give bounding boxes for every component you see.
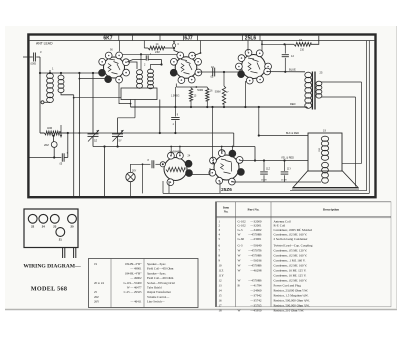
svg-text:18: 18 — [219, 309, 223, 313]
svg-text:19: 19 — [94, 262, 98, 266]
wire gang bottom rail — [93, 146, 234, 148]
svg-text:2 Section Gang Condenser: 2 Section Gang Condenser — [274, 237, 309, 241]
wire left return vertical B — [78, 73, 80, 196]
wire right side AC line 2 — [368, 41, 370, 194]
wire 6K7 grid to 6J7 grid (AVC) — [123, 53, 177, 55]
svg-text:W: W — [238, 309, 241, 313]
svg-text:—56036: —56036 — [249, 259, 262, 263]
wire screen riser — [195, 86, 197, 88]
speaker cone — [293, 171, 358, 188]
RF coil shield box — [121, 88, 157, 100]
svg-text:—45708B: —45708B — [247, 264, 261, 268]
wire plate into coil sec top — [161, 60, 163, 65]
wire drop to RF coil primary — [140, 54, 142, 70]
wire R18 to frame — [311, 36, 319, 45]
svg-text:184-BL-4”D”: 184-BL-4”D” — [125, 262, 142, 266]
socket 20 — [68, 214, 77, 223]
svg-text:—23001: —23001 — [249, 237, 262, 241]
svg-text:Power Cord and Plug: Power Cord and Plug — [274, 284, 302, 288]
svg-text:—45707B: —45707B — [247, 249, 261, 253]
wire ballast drop — [142, 164, 144, 193]
tube V4 internal — [221, 159, 232, 174]
tube V1 internal grid — [108, 59, 120, 74]
svg-text:11Z: 11Z — [266, 168, 270, 171]
wire V4 plate riser — [213, 107, 215, 160]
wire bottom ground bus — [163, 192, 369, 194]
svg-text:Field Coil—450 Ohm: Field Coil—450 Ohm — [147, 276, 174, 280]
svg-text:BLK & RED: BLK & RED — [286, 132, 299, 135]
wire secondary to voice coil (right) — [321, 81, 361, 83]
svg-text:—41784: —41784 — [249, 284, 262, 288]
wire AVC bus horizontal — [60, 132, 234, 134]
wire B- drop to blk&red — [258, 107, 260, 136]
svg-text:Volume Control—: Volume Control— — [147, 295, 170, 299]
svg-text:W — 46477: W — 46477 — [127, 286, 142, 290]
svg-text:—37942: —37942 — [249, 294, 262, 298]
wire V1 pin drop to rail riser — [119, 83, 131, 104]
svg-text:—24960: —24960 — [249, 289, 262, 293]
svg-text:Twisted Lead—Cap. Coupling: Twisted Lead—Cap. Coupling — [274, 244, 313, 248]
tube V2 internal — [181, 60, 192, 75]
svg-text:W: W — [238, 233, 241, 237]
inner heater-bus line along top — [30, 40, 375, 42]
svg-text:Description: Description — [323, 208, 339, 212]
svg-text:.0005: .0005 — [30, 63, 37, 66]
tube V2 6J7 — [175, 57, 197, 79]
svg-text:5Z: 5Z — [94, 139, 97, 143]
svg-text:G-119—55400: G-119—55400 — [123, 281, 142, 285]
transformer core — [311, 72, 313, 110]
svg-text:500M: 500M — [197, 90, 203, 92]
tube V4 25Z6 rectifier — [214, 155, 239, 180]
svg-text:15: 15 — [219, 294, 223, 298]
wire cap8 riser — [67, 133, 69, 158]
wire R14 to 6J7 grid cap — [174, 48, 181, 53]
wire ballast bottom pin — [168, 181, 170, 193]
wire V4 output to voice coil rail — [233, 181, 321, 182]
RF coil primary — [137, 70, 143, 75]
svg-text:Line Switch—: Line Switch— — [147, 300, 166, 304]
wire V3 grid caps up to heater bus — [247, 41, 249, 52]
wire V4 bottom to ground bus — [219, 181, 221, 193]
svg-text:11Y: 11Y — [287, 168, 291, 171]
big table bottom rule — [216, 306, 391, 308]
socket 22 — [28, 214, 37, 223]
wire right side AC line 1 — [366, 41, 368, 191]
wire V2 pin riser — [175, 84, 177, 88]
top strip tick marks — [118, 35, 120, 41]
wire ballast heater stubs — [170, 147, 172, 157]
wire lower left rail — [28, 157, 61, 159]
capacitor C11Y 16Mf — [284, 161, 286, 172]
svg-text:MODEL 568: MODEL 568 — [31, 285, 68, 292]
svg-text:—45950: —45950 — [249, 309, 262, 313]
svg-text:20: 20 — [70, 225, 74, 229]
wire grid cap V1 to heater bus — [119, 41, 121, 52]
svg-text:G-3: G-3 — [238, 228, 243, 232]
svg-text:WIRING DIAGRAM—: WIRING DIAGRAM— — [23, 263, 81, 269]
antenna coil primary winding — [49, 70, 51, 74]
svg-text:—46298: —46298 — [249, 269, 262, 273]
wire V3 plate to output transformer (BLUE) — [267, 71, 305, 73]
svg-text:25: 25 — [94, 290, 98, 294]
wire second bottom bus — [290, 190, 367, 192]
svg-text:G-60: G-60 — [238, 237, 245, 241]
wire left return vertical A — [73, 95, 75, 196]
wire cluster top bus — [176, 86, 207, 88]
wire B- rail — [131, 106, 308, 108]
svg-text:Field Coil—450 Ohm: Field Coil—450 Ohm — [147, 267, 174, 271]
svg-text:14: 14 — [219, 289, 223, 293]
antenna coil secondary winding — [60, 73, 62, 75]
svg-text:— 46411: — 46411 — [130, 300, 142, 304]
svg-text:W: W — [238, 249, 241, 253]
chassis layout box — [24, 209, 78, 248]
capacitor C8 — [61, 153, 63, 161]
speaker field coil box 19 — [308, 133, 342, 171]
svg-text:— 49901: — 49901 — [129, 267, 142, 271]
svg-text:—34002: —34002 — [249, 228, 262, 232]
svg-text:23M: 23M — [155, 51, 160, 54]
parts table items 1-18 — [215, 202, 217, 308]
svg-text:— 49902: — 49902 — [129, 276, 142, 280]
svg-text:25L6: 25L6 — [245, 36, 257, 42]
svg-text:ANT LEAD: ANT LEAD — [36, 42, 53, 46]
svg-text:G-102: G-102 — [238, 224, 247, 228]
resistor R16 500M — [206, 88, 209, 101]
svg-text:10: 10 — [219, 264, 223, 268]
svg-text:W: W — [238, 269, 241, 273]
svg-text:21: 21 — [59, 238, 63, 242]
resistor R17 500M — [223, 71, 225, 73]
socket 24 — [39, 214, 48, 223]
wire pot left leg — [40, 132, 45, 134]
wire C10 to 25L6 grid — [239, 68, 241, 72]
svg-text:Antenna Coil: Antenna Coil — [274, 219, 291, 223]
wire coil secondary bottom elbow — [61, 93, 74, 95]
variable capacitor 5Y gang section — [117, 118, 119, 134]
svg-text:—45708B: —45708B — [247, 233, 261, 237]
svg-text:20 to 24: 20 to 24 — [94, 281, 104, 285]
wire AVC bus corner to yel-red rail — [233, 133, 235, 147]
capacitor C9 .1Mf — [174, 106, 176, 108]
ballast internal resistor — [166, 167, 185, 171]
svg-text:—45708B: —45708B — [247, 279, 261, 283]
wire coil tops to grid bus — [40, 72, 99, 74]
svg-text:210: 210 — [300, 49, 305, 52]
power cord legs — [62, 248, 64, 259]
svg-text:26Z: 26Z — [44, 143, 49, 147]
svg-text:—50640: —50640 — [249, 244, 262, 248]
schematic outer frame — [28, 35, 375, 198]
svg-text:12: 12 — [219, 279, 223, 283]
svg-text:W: W — [238, 279, 241, 283]
wire shield box drop — [159, 100, 161, 134]
wire ant cap down left leg — [39, 57, 41, 133]
wire heater bus to R18 — [262, 41, 285, 45]
wire primary bottom to rail — [305, 106, 308, 109]
wire cathode link to V1 — [79, 78, 104, 80]
svg-text:BLUE: BLUE — [289, 67, 296, 71]
svg-text:Part No.: Part No. — [247, 208, 259, 212]
voice coil — [322, 162, 329, 168]
wire V4 heater stubs to rail — [221, 147, 223, 153]
capacitor C4 — [145, 55, 147, 60]
svg-text:24: 24 — [42, 225, 46, 229]
wire 5Y top link — [118, 117, 135, 119]
switch 26Z circle — [52, 135, 54, 137]
capacitor C9b line cap — [151, 160, 153, 168]
wire lamp top loop — [131, 164, 143, 172]
svg-text:W: W — [238, 264, 241, 268]
wire box to 5Y riser — [134, 100, 136, 118]
svg-text:25Z6: 25Z6 — [221, 187, 232, 192]
svg-text:26Y: 26Y — [132, 170, 137, 173]
svg-text:YEL & RED: YEL & RED — [281, 156, 294, 159]
svg-text:26Z: 26Z — [94, 295, 99, 299]
capacitor C3 .0005 ant coupling — [23, 56, 33, 58]
output transformer secondary — [316, 81, 322, 86]
svg-text:184-BL-4”H”: 184-BL-4”H” — [125, 271, 142, 275]
field coil winding — [321, 136, 328, 141]
svg-text:G-3: G-3 — [238, 244, 243, 248]
wire gang rail ground leg — [104, 147, 106, 197]
capacitor C10 — [212, 68, 214, 77]
parts table items 19-26Y — [89, 259, 199, 308]
wiper arrow — [60, 125, 62, 138]
capacitor C11Z 16Mf — [263, 161, 265, 172]
ballast left terminal — [160, 162, 165, 167]
svg-text:16 Mf: 16 Mf — [261, 180, 267, 182]
wire V2 plate to C10 — [197, 71, 240, 73]
svg-text:Socket—8 Prong Octal: Socket—8 Prong Octal — [147, 281, 175, 285]
svg-text:Output Transformer: Output Transformer — [147, 290, 171, 294]
svg-text:22: 22 — [31, 225, 35, 229]
svg-text:6J7: 6J7 — [184, 36, 193, 42]
tube V1 6K7 — [104, 57, 125, 78]
svg-text:13: 13 — [219, 284, 223, 288]
twisted lead item 6 — [172, 41, 175, 47]
svg-text:W: W — [238, 254, 241, 258]
wire switch to lower rail — [53, 147, 55, 157]
svg-text:11Y: 11Y — [219, 274, 225, 278]
svg-text:R-F. Coil: R-F. Coil — [274, 224, 286, 228]
capacitor C12 — [284, 44, 286, 53]
tube V3 25L6 — [242, 55, 266, 79]
svg-text:Tube Shield: Tube Shield — [147, 286, 162, 290]
wire heater riser to R14 — [143, 41, 145, 49]
svg-text:B: B — [238, 284, 240, 288]
socket 23 — [50, 214, 59, 223]
svg-text:11Z: 11Z — [219, 269, 224, 273]
svg-text:G-102: G-102 — [238, 219, 247, 223]
wire coil to shield box — [74, 97, 121, 99]
svg-text:No.: No. — [224, 210, 229, 214]
svg-text:6K7: 6K7 — [103, 36, 112, 42]
svg-text:500M: 500M — [215, 92, 221, 94]
svg-text:RED: RED — [290, 102, 296, 106]
wire V1 plate to RF coil — [128, 62, 138, 69]
resistor R15 1.5 Meg — [189, 88, 192, 101]
svg-text:16 Mf: 16 Mf — [281, 180, 287, 182]
wire V3 cathode drop — [244, 81, 246, 107]
svg-text:W: W — [238, 259, 241, 263]
svg-text:Speaker—Spec.: Speaker—Spec. — [147, 271, 166, 275]
wire heater drop to V2 — [200, 41, 202, 54]
svg-text:—35742: —35742 — [249, 299, 262, 303]
svg-text:C-25 — 29325: C-25 — 29325 — [124, 290, 142, 294]
svg-text:—32000: —32000 — [249, 219, 262, 223]
wire V1 plate lead — [127, 60, 146, 62]
svg-text:—45708B: —45708B — [247, 254, 261, 258]
pilot lamp 26Y — [126, 172, 135, 181]
svg-text:26Y: 26Y — [94, 300, 100, 304]
svg-text:Speaker—Spec.: Speaker—Spec. — [147, 262, 166, 266]
svg-text:5Y: 5Y — [119, 139, 122, 143]
svg-text:40M: 40M — [47, 126, 52, 130]
RF coil secondary — [148, 69, 154, 73]
socket 21 — [56, 228, 65, 237]
wire V4 right pin to yel&red rail — [240, 160, 255, 162]
svg-text:—32001: —32001 — [249, 224, 262, 228]
svg-text:16: 16 — [219, 299, 223, 303]
wire ballast to V4 — [192, 168, 211, 175]
variable capacitor 5Z gang section — [92, 73, 94, 134]
output transformer T25 primary — [305, 72, 312, 78]
tube V3 internal — [248, 58, 260, 73]
wire lamp bottom — [130, 182, 132, 196]
svg-text:23: 23 — [53, 225, 57, 229]
